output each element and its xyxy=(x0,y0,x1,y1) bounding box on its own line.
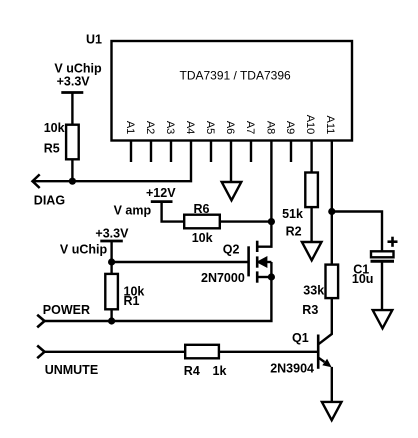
junction dot Q2 source xyxy=(268,273,275,280)
wire gate node to Q2 gate xyxy=(112,261,249,263)
junction dot DIAG/R5 xyxy=(69,178,76,185)
svg-text:10u: 10u xyxy=(352,272,374,286)
wire UNMUTE to R4 xyxy=(44,351,185,353)
power bar +3.3V (top left) xyxy=(61,91,83,94)
wire Q2 source stub xyxy=(257,276,271,278)
svg-text:A9: A9 xyxy=(284,121,296,134)
capacitor C1 bottom plate xyxy=(371,260,395,263)
svg-text:A4: A4 xyxy=(184,121,196,134)
wire +3.3V to R5 xyxy=(71,93,73,125)
ground under Q1 xyxy=(322,402,342,420)
ground under R2 xyxy=(302,242,322,260)
pin A4 xyxy=(190,141,192,162)
pin A6 xyxy=(230,141,232,181)
resistor R6 10k xyxy=(184,215,220,229)
svg-text:A5: A5 xyxy=(204,121,216,134)
pin A8 xyxy=(270,141,272,162)
svg-text:R5: R5 xyxy=(44,142,60,156)
svg-text:R6: R6 xyxy=(194,202,210,216)
svg-text:R4: R4 xyxy=(184,364,200,378)
wire R3 to Q1 collector xyxy=(331,298,333,299)
junction dot gate node xyxy=(108,258,115,265)
resistor R3 33k xyxy=(326,265,339,299)
svg-text:Q1: Q1 xyxy=(292,331,309,345)
arrow DIAG output xyxy=(33,174,40,188)
svg-text:2N7000: 2N7000 xyxy=(201,271,245,285)
wire R2 to ground xyxy=(310,207,312,241)
pin A10 xyxy=(310,141,312,172)
svg-text:TDA7391 / TDA7396: TDA7391 / TDA7396 xyxy=(180,69,292,83)
pin A1 xyxy=(130,141,132,162)
svg-text:33k: 33k xyxy=(303,283,324,297)
svg-text:A7: A7 xyxy=(244,121,256,134)
IC U1 body TDA7391/TDA7396 xyxy=(112,41,353,141)
pin A2 xyxy=(150,141,152,162)
wire R5 to DIAG xyxy=(71,159,73,181)
svg-text:A10: A10 xyxy=(304,115,316,135)
svg-text:10k: 10k xyxy=(192,231,213,245)
svg-text:V uChip: V uChip xyxy=(54,62,102,76)
svg-text:A1: A1 xyxy=(124,121,136,134)
resistor R1 10k xyxy=(105,274,118,309)
svg-text:A8: A8 xyxy=(264,121,276,134)
svg-text:R2: R2 xyxy=(286,224,302,238)
svg-text:1k: 1k xyxy=(213,364,227,378)
svg-text:51k: 51k xyxy=(282,207,303,221)
connector UNMUTE input chevron xyxy=(37,346,44,359)
transistor Q2 2N7000 gate bar xyxy=(247,246,250,276)
transistor Q2 body arrow xyxy=(265,261,272,263)
pin A9 xyxy=(290,141,292,162)
transistor Q1 emitter arrowhead xyxy=(322,359,331,368)
resistor R2 51k on pin A10 xyxy=(305,173,318,208)
ground under C1 xyxy=(373,310,393,328)
wire Q2 body to source xyxy=(270,262,272,277)
power bar +3.3V (at R1) xyxy=(100,240,123,243)
wire Q2 source down to POWER line xyxy=(44,277,271,321)
svg-text:R1: R1 xyxy=(124,294,140,308)
svg-text:A3: A3 xyxy=(164,121,176,134)
connector POWER input chevron xyxy=(37,315,44,328)
pin A5 xyxy=(210,141,212,162)
svg-text:+3.3V: +3.3V xyxy=(57,75,91,89)
ground under pin A6 xyxy=(222,182,242,200)
svg-text:DIAG: DIAG xyxy=(34,194,65,208)
svg-text:UNMUTE: UNMUTE xyxy=(45,363,98,377)
wire node A11 to C1 xyxy=(332,212,382,252)
plus sign for C1 xyxy=(388,240,398,243)
svg-text:A6: A6 xyxy=(224,121,236,134)
svg-text:V uChip: V uChip xyxy=(60,243,108,257)
wire A8 down to Q2 drain xyxy=(257,162,271,247)
capacitor C1 top plate xyxy=(371,251,394,257)
wire C1 to ground xyxy=(381,263,383,310)
transistor Q1 2N3904 base bar xyxy=(317,335,320,369)
svg-text:R3: R3 xyxy=(302,303,318,317)
svg-text:A11: A11 xyxy=(324,116,336,135)
pin A3 xyxy=(170,141,172,162)
wire +3.3V bar to gate node xyxy=(110,241,112,273)
resistor R5 10k xyxy=(66,125,79,160)
transistor Q1 emitter xyxy=(319,358,325,362)
junction dot A11/C1 xyxy=(328,208,335,215)
wire R6 to A8 node xyxy=(220,220,272,222)
wire R4 to Q1 base xyxy=(219,351,317,353)
svg-text:Q2: Q2 xyxy=(223,243,240,257)
wire A11 down through node to R3 xyxy=(331,162,333,264)
junction dot R1/POWER xyxy=(108,317,115,324)
svg-text:10k: 10k xyxy=(44,121,65,135)
wire Q1 emitter to ground xyxy=(331,367,333,401)
transistor Q2 channel segment bottom xyxy=(256,271,259,282)
svg-text:U1: U1 xyxy=(86,32,102,46)
svg-text:V amp: V amp xyxy=(114,204,152,218)
svg-text:A2: A2 xyxy=(144,121,156,134)
transistor Q2 channel segment middle xyxy=(256,256,259,267)
junction dot A8/R6 xyxy=(268,218,275,225)
power bar +12V xyxy=(151,200,173,203)
wire DIAG line from A4 xyxy=(33,162,192,181)
svg-text:+12V: +12V xyxy=(146,186,176,200)
pin A11 xyxy=(331,141,333,162)
svg-text:+3.3V: +3.3V xyxy=(95,226,129,240)
resistor R4 1k xyxy=(185,345,219,359)
svg-text:2N3904: 2N3904 xyxy=(270,362,314,376)
transistor Q1 collector xyxy=(319,299,332,344)
transistor Q2 channel segment top xyxy=(256,241,259,252)
wire R1 to POWER line xyxy=(110,309,112,321)
pin A7 xyxy=(250,141,252,162)
svg-text:POWER: POWER xyxy=(43,303,90,317)
wire +12V to R6 xyxy=(162,202,184,222)
